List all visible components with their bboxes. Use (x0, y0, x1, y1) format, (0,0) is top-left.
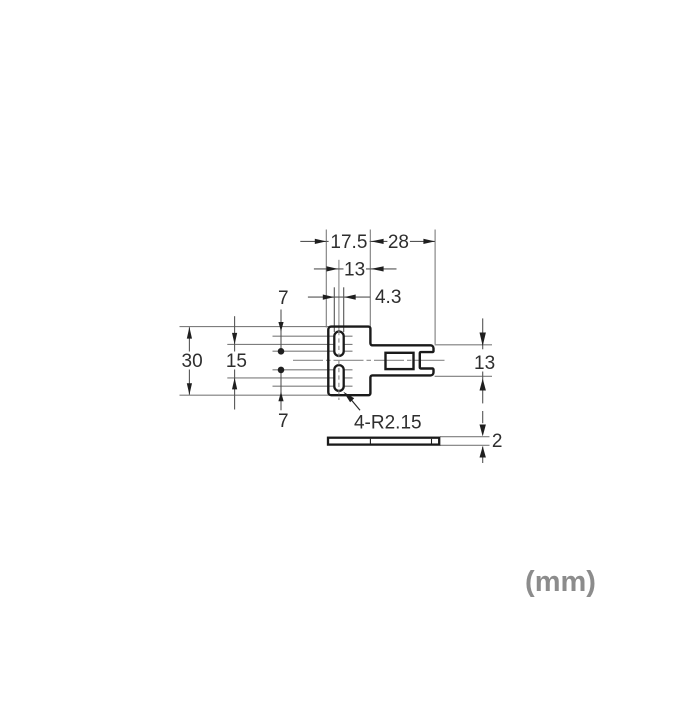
leader arrowhead at slot radius (343, 392, 354, 403)
part outline (front view) (328, 327, 433, 396)
svg-text:2: 2 (492, 431, 503, 452)
ext line R2 arm bottom (y=376.3) (435, 375, 492, 377)
slot centerline inside slots (chain, x=338.9) (338, 331, 340, 400)
arrow left at B (outside) (371, 266, 384, 271)
broken leader segment between 13 and 2 (482, 411, 484, 423)
extension line slot-left (x=334.3) (333, 287, 335, 332)
label 17.5 (329, 233, 370, 250)
extension line C (right end, x=435.1) (434, 230, 436, 345)
label 15 (224, 352, 249, 370)
main horizontal centerline (chain, y=360.3) (293, 359, 447, 361)
svg-text:4-R2.15: 4-R2.15 (354, 412, 422, 433)
svg-text:15: 15 (226, 351, 247, 372)
label 13 (344, 261, 367, 278)
svg-text:13: 13 (474, 353, 495, 374)
lower slot (obround) (334, 365, 343, 391)
inner rectangle window (386, 353, 414, 369)
arrow down to L3 (15) (232, 333, 237, 345)
label 30 (180, 352, 205, 370)
dot terminator upper (278, 348, 285, 355)
arrow right at slot centerline (327, 266, 339, 271)
extension line B (step edge, x=370.3) (369, 230, 371, 328)
leader line for 4-R2.15 (351, 400, 360, 411)
arrow up (2, below bar) line (482, 447, 484, 464)
svg-text:17.5: 17.5 (330, 232, 367, 253)
arrow right at A (315, 239, 327, 244)
bottom view ext line B2 (y=445.3) (440, 444, 490, 446)
arrow left at slot-right (344, 295, 356, 300)
arrow up to L7 (15) (232, 378, 237, 390)
dimension 13 right line lower segment (482, 372, 484, 404)
dimension row 4.3 line (y=297.1) (308, 296, 370, 298)
svg-text:13: 13 (344, 260, 365, 281)
dimension row 13 line (y=268.9) (314, 268, 397, 270)
dimension 7 top line (x=281) (280, 310, 282, 352)
slot vertical centerline (chain, x=338.9) (338, 260, 340, 331)
dot terminator lower (278, 367, 285, 374)
arrow up (13 right) (480, 379, 486, 391)
arrow down (30) (187, 383, 192, 395)
upper slot (obround) (334, 332, 343, 356)
svg-text:7: 7 (278, 411, 289, 432)
arrow right at slot-left (323, 295, 335, 300)
bottom view bar (328, 438, 439, 445)
ext line L3 upper slot mid (y=344.4) (227, 343, 352, 345)
dimension 15 line (x=234.6) (234, 316, 236, 409)
extension line slot-right (x=343.7) (343, 287, 345, 332)
bar tick at step (x=370.4) (369, 439, 371, 444)
ext line L1 plate top (y=326.6) (180, 326, 331, 328)
bottom view ext line B1 (y=436.7) (440, 436, 490, 438)
arrow up (2, below bar) (480, 446, 486, 457)
arrow up (30) (187, 327, 192, 339)
dimension 7 bottom line (x=281) (280, 370, 282, 410)
ext line L6 lower slot top-arc center (y=369.8) (273, 369, 353, 371)
dimension 13 right line upper segment (x=482.7) (482, 318, 484, 349)
dimension row 17.5/28 line (y=241.4) (300, 240, 435, 242)
ext line L2 upper slot top-arc center (y=336.2) (273, 335, 353, 337)
svg-text:7: 7 (278, 288, 289, 309)
arrow right at C (423, 239, 435, 244)
svg-text:28: 28 (388, 232, 409, 253)
arrow down (2, above bar) (480, 425, 486, 437)
arrow up (7 bottom) (278, 392, 283, 402)
svg-text:(mm): (mm) (525, 566, 596, 598)
arrow left at B (outside) (371, 239, 384, 244)
arrow down (7 top) (278, 322, 283, 332)
ext line L9 plate bottom (y=395.2) (180, 394, 331, 396)
ext line L4 upper slot bottom-arc center (y=351.2) (273, 350, 353, 352)
bar tick near right end (x=431.5) (431, 439, 433, 444)
ext line R1 arm top (y=344.8) (435, 344, 492, 346)
ext line L8 lower slot bottom-arc center (y=386.2) (273, 385, 353, 387)
svg-text:30: 30 (182, 351, 203, 372)
svg-text:4.3: 4.3 (375, 287, 401, 308)
label 28 (387, 233, 410, 250)
extension line A (left edge, x=326.3) (325, 230, 327, 328)
arrow down (13 right) (480, 333, 486, 347)
ext line L7 lower slot mid (y=377.9) (227, 377, 352, 379)
dimension 30 line (x=189.4) (188, 327, 190, 395)
